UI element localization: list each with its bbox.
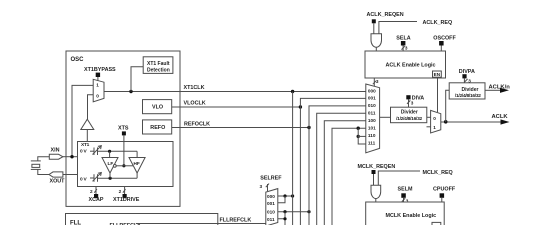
svg-text:DIVA: DIVA	[412, 96, 425, 102]
svg-text:ACLK Enable Logic: ACLK Enable Logic	[386, 63, 436, 69]
wire DIVA stub	[408, 99, 410, 107]
svg-text:HF: HF	[134, 161, 140, 166]
XTS terminal square	[122, 131, 126, 135]
svg-text:000: 000	[267, 194, 275, 199]
svg-text:3: 3	[260, 184, 263, 189]
svg-text:XOUT: XOUT	[50, 178, 66, 184]
wire gate G2 output	[375, 198, 377, 202]
svg-text:2: 2	[90, 189, 93, 194]
svg-text:VLO: VLO	[152, 105, 163, 111]
pin XOUT	[49, 172, 63, 177]
wire CPUOFF stub	[441, 198, 443, 202]
bus width 3 marker (mux select)	[373, 81, 376, 84]
SELM terminal square	[401, 193, 406, 198]
svg-text:FLLREFCLK: FLLREFCLK	[220, 218, 252, 224]
wire selref tie 000-001	[278, 196, 285, 203]
gate G2 (MCLK request AND)	[371, 185, 381, 198]
svg-text:3: 3	[411, 101, 414, 106]
node ACLK branch	[444, 120, 448, 124]
crystal X1	[38, 157, 50, 161]
wire to upper divider	[446, 90, 450, 122]
pin XCAP	[95, 186, 97, 194]
node: XT1CLK bus tap	[291, 90, 294, 93]
svg-text:REFO: REFO	[150, 125, 165, 131]
XT1BYPASS terminal square	[96, 73, 100, 77]
svg-text:Divider: Divider	[462, 87, 479, 93]
EN sub box	[433, 71, 442, 77]
wire ACLK/n out	[485, 89, 501, 91]
wire: upper row to LF/HF	[98, 150, 138, 152]
OSC block outline	[66, 51, 180, 206]
bus width 3 marker (DIVA)	[407, 100, 410, 104]
bus width 3 marker (SELA)	[402, 46, 405, 49]
svg-text:ACLK: ACLK	[492, 114, 509, 120]
wire REFOCLK	[172, 127, 309, 129]
arrowhead ACLK/n	[500, 88, 509, 93]
wire divider out	[427, 116, 431, 118]
wire into gate input1	[373, 23, 375, 34]
XT1DRIVE terminal square	[123, 194, 127, 198]
svg-text:110: 110	[368, 133, 376, 138]
wire selref row000	[278, 195, 293, 197]
wire OSCOFF stub	[440, 46, 442, 52]
bus line XT1CLK vertical	[292, 92, 294, 226]
wire SELA stub	[402, 46, 404, 52]
svg-text:0: 0	[433, 116, 436, 121]
svg-text:LF: LF	[108, 161, 114, 166]
svg-text:3: 3	[405, 45, 408, 50]
bus width 3 marker (DIVPA)	[464, 79, 467, 82]
svg-text:101: 101	[368, 126, 376, 131]
wire stub input 1	[427, 126, 431, 128]
svg-text:MCLK_REQ: MCLK_REQ	[423, 170, 453, 176]
svg-text:1: 1	[433, 125, 436, 130]
svg-text:Divider: Divider	[401, 110, 418, 116]
wire mux out to divider	[380, 116, 390, 118]
svg-text:ACLK_REQ: ACLK_REQ	[423, 20, 453, 26]
bus line VLOCLK vertical	[300, 98, 365, 225]
divider D2 (ACLK/n)	[449, 83, 485, 99]
svg-text:Detection: Detection	[147, 68, 170, 74]
svg-text:VLOCLK: VLOCLK	[184, 101, 206, 107]
REFO box	[143, 120, 172, 134]
svg-text:/1/2/4/8/16/32: /1/2/4/8/16/32	[455, 93, 481, 99]
FLL block outline	[66, 214, 218, 234]
XT1 core box	[78, 142, 174, 187]
wire: buffer input from core box	[86, 130, 88, 142]
wire ACLK_REQ	[379, 22, 417, 35]
svg-text:100: 100	[368, 118, 376, 123]
svg-text:OSCOFF: OSCOFF	[433, 36, 456, 42]
bus line REFOCLK vertical	[309, 106, 366, 225]
mux U_selref	[266, 189, 278, 226]
wire aclk mux row110 tie	[357, 127, 360, 130]
svg-text:OSC: OSC	[71, 57, 85, 63]
wire: XT1BYPASS select stub	[97, 77, 99, 82]
svg-text:SELREF: SELREF	[260, 176, 282, 182]
wire ACLK out	[441, 121, 502, 123]
wire: bypass path to mux input 1	[72, 85, 93, 156]
wire selref row010	[278, 211, 309, 213]
svg-text:1: 1	[96, 83, 99, 88]
wire XTS select	[123, 135, 125, 165]
DIVA terminal square	[406, 95, 410, 99]
wire EN select	[437, 78, 439, 112]
svg-text:2: 2	[119, 189, 122, 194]
ACLK_REQEN terminal	[372, 19, 376, 23]
svg-text:EN: EN	[434, 72, 441, 77]
svg-text:REFOCLK: REFOCLK	[184, 122, 210, 128]
svg-text:XT1DRIVE: XT1DRIVE	[113, 197, 140, 203]
node XIN bypass tap	[70, 155, 73, 158]
node VLOCLK bus tap	[299, 105, 302, 108]
wire FLLREFCLK	[136, 223, 266, 225]
wire XIN into core	[63, 156, 78, 158]
mux U_bypass (XT1BYPASS)	[93, 79, 104, 102]
DIVPA terminal square	[462, 74, 466, 78]
wire: to fault detection	[131, 67, 143, 92]
SELA terminal square	[401, 41, 406, 46]
pin XT1DRIVE	[124, 186, 126, 194]
amp HF	[129, 158, 145, 174]
MCLK_REQEN terminal square	[372, 170, 376, 174]
wire MCLK_REQ	[378, 171, 420, 186]
svg-text:0 V: 0 V	[80, 177, 88, 183]
EN sub box (clipped)	[432, 222, 441, 228]
inverter bubble on LF select	[113, 165, 116, 168]
mux U_aclk (8:1)	[366, 84, 380, 153]
svg-text:XTS: XTS	[118, 126, 129, 132]
svg-text:XT1BYPASS: XT1BYPASS	[84, 67, 116, 73]
svg-text:CPUOFF: CPUOFF	[433, 187, 456, 193]
gate G1 (ACLK request AND)	[371, 34, 382, 47]
wire into gate input1	[373, 174, 375, 186]
svg-text:MCLK_REQEN: MCLK_REQEN	[358, 164, 396, 170]
ACLK Enable Logic box	[365, 51, 446, 78]
bus line DCOCLKDIV vertical	[324, 121, 366, 225]
svg-text:ACLK/n: ACLK/n	[489, 85, 511, 91]
switch S1 (upper 0V bypass cap)	[90, 150, 94, 152]
svg-text:XCAP: XCAP	[89, 197, 104, 203]
svg-text:DIVPA: DIVPA	[459, 69, 475, 75]
amp LF	[102, 158, 118, 174]
mux U_en (2:1)	[431, 110, 441, 133]
divider D1 (ACLK)	[391, 107, 427, 123]
svg-text:XT1 Fault: XT1 Fault	[147, 61, 170, 67]
svg-text:0 V: 0 V	[80, 149, 88, 155]
OSCOFF terminal square	[439, 41, 444, 46]
svg-text:000: 000	[368, 88, 376, 93]
svg-text:MCLK Enable Logic: MCLK Enable Logic	[386, 213, 437, 219]
bus width 2 marker (XT1DRIVE)	[123, 189, 126, 193]
svg-text:0: 0	[96, 94, 99, 99]
wire XT1CLK main horizontal	[104, 91, 366, 93]
wire SELA to mux select	[373, 78, 375, 86]
svg-text:010: 010	[267, 210, 275, 215]
wire DIVPA stub	[463, 78, 465, 82]
svg-text:3: 3	[376, 79, 379, 84]
VLO box	[143, 100, 172, 114]
node REFOCLK bus tap	[307, 126, 310, 129]
bus width 2 marker (XCAP)	[94, 189, 97, 193]
MCLK Enable Logic box	[366, 202, 445, 232]
svg-text:011: 011	[267, 217, 275, 222]
svg-text:111: 111	[368, 140, 376, 145]
svg-text:001: 001	[267, 201, 275, 206]
wire selref row011 tie	[278, 219, 285, 225]
wire XOUT into core	[63, 174, 78, 176]
wire VLOCLK	[172, 106, 301, 108]
svg-text:SELA: SELA	[396, 36, 410, 42]
bus width 3 marker (SELM)	[402, 198, 405, 201]
XCAP terminal square	[94, 194, 98, 198]
svg-text:XT1: XT1	[81, 142, 90, 148]
buffer A1 (osc output buffer, points up)	[81, 119, 94, 129]
svg-text:/1/2/4/8/16/32: /1/2/4/8/16/32	[396, 116, 422, 122]
CPUOFF terminal square	[440, 193, 445, 198]
wire gate output	[375, 47, 377, 51]
svg-text:ACLK_REQEN: ACLK_REQEN	[367, 12, 404, 18]
bus line reserved vertical	[332, 128, 366, 225]
XT1 Fault Detection box	[143, 57, 173, 74]
switch S2 (lower 0V bypass cap)	[90, 177, 94, 179]
bus line DCOCLK vertical	[317, 113, 366, 225]
svg-text:EN: EN	[433, 224, 440, 225]
svg-text:XIN: XIN	[51, 148, 60, 154]
svg-text:SELM: SELM	[398, 187, 413, 193]
svg-text:001: 001	[368, 96, 376, 101]
arrowhead ACLK	[501, 119, 510, 124]
wire SELM stub	[403, 198, 405, 202]
svg-text:011: 011	[368, 111, 376, 116]
svg-text:010: 010	[368, 103, 376, 108]
node: fault tap	[129, 90, 132, 93]
wire: osc output to mux input 0	[88, 95, 94, 119]
svg-text:XT1CLK: XT1CLK	[184, 85, 205, 91]
svg-text:FLL: FLL	[70, 221, 81, 226]
wire: lower row	[98, 177, 138, 179]
